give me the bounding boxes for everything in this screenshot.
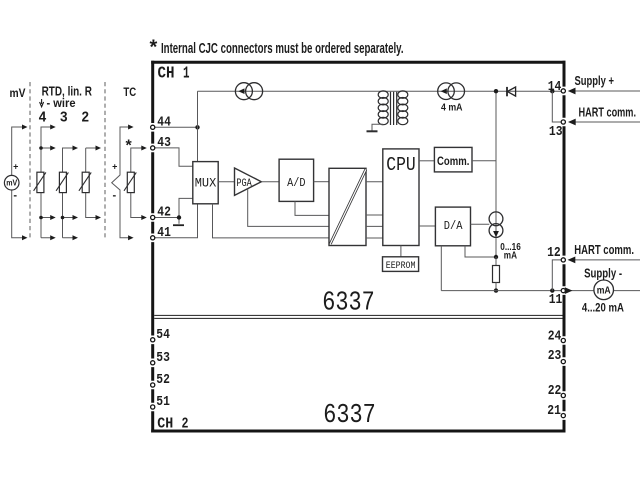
svg-text:PGA: PGA	[236, 178, 252, 190]
wire D/A bottom to sense node	[465, 246, 496, 257]
sense resistor	[493, 266, 500, 283]
svg-text:mA: mA	[597, 285, 611, 297]
wire A/D to isolation	[314, 181, 329, 183]
terminal 21	[561, 414, 565, 418]
svg-text:6337: 6337	[322, 288, 375, 318]
Comm block	[434, 147, 472, 172]
wire PGA to A/D	[261, 181, 279, 183]
svg-text:*: *	[126, 138, 133, 155]
wire D/A left leg down	[440, 246, 442, 291]
terminal 42	[151, 215, 155, 219]
svg-text:42: 42	[157, 205, 171, 221]
HART comm. arrowhead (13)	[568, 119, 576, 126]
HART comm. external wire (12)	[569, 259, 640, 261]
svg-text:21: 21	[547, 403, 561, 419]
arrow to terminal 41 from mV	[22, 235, 28, 240]
PGA amplifier triangle	[235, 168, 262, 195]
secondary winding	[398, 91, 408, 98]
CJC resistor	[124, 172, 136, 192]
Supply - external wire with mA meter	[571, 290, 594, 292]
CH1 terminal block top bus	[151, 61, 565, 64]
RTD resistor (3-wire)	[56, 172, 68, 192]
CPU block	[383, 149, 419, 246]
svg-text:12: 12	[547, 245, 561, 261]
isolation to CPU wires	[366, 182, 383, 238]
svg-text:Supply -: Supply -	[584, 266, 622, 280]
label -wire down-arrow	[40, 99, 44, 107]
wire source to resistor	[495, 257, 497, 266]
svg-text:41: 41	[157, 225, 171, 241]
mV source loop wire	[12, 127, 25, 238]
terminal 12	[561, 258, 565, 262]
junction node to terminal 12 branch	[550, 288, 554, 292]
mA meter circle	[594, 280, 614, 300]
svg-text:22: 22	[548, 383, 562, 399]
svg-text:53: 53	[156, 350, 170, 366]
TC arrow to terminal 41	[128, 235, 134, 240]
Supply + arrowhead	[568, 88, 576, 95]
wire Comm to supply vertical	[472, 160, 496, 162]
wire A/D bottom to isolation	[295, 201, 329, 215]
svg-text:mV: mV	[10, 86, 26, 100]
svg-text:MUX: MUX	[195, 176, 217, 191]
svg-text:2: 2	[81, 109, 89, 126]
svg-text:+: +	[13, 161, 18, 171]
junction node top rail / supply vertical	[494, 89, 498, 93]
RTD 4-wire column wire	[41, 127, 53, 238]
wire branch to terminal 13	[552, 91, 561, 122]
svg-text:CH: CH	[158, 64, 175, 83]
transformer T1	[378, 91, 408, 125]
svg-text:Supply +: Supply +	[575, 74, 615, 88]
RTD 4-wire junction dot at 42 level	[39, 216, 43, 220]
wire terminal 42 to MUX	[155, 198, 193, 223]
arrow to terminal 44 from mV	[22, 125, 28, 130]
svg-text:4: 4	[39, 109, 47, 126]
wire branch to terminal 12	[552, 260, 561, 291]
svg-text:D/A: D/A	[444, 220, 463, 233]
galvanic isolation barrier	[329, 168, 366, 245]
svg-text:mV: mV	[6, 179, 18, 188]
svg-text:CH: CH	[157, 416, 173, 433]
D/A block	[435, 207, 470, 246]
RTD 2-wire column wire	[86, 148, 97, 218]
wire terminal 41 to MUX bottom	[155, 204, 198, 238]
RTD 4-wire junction dot at 43 level	[39, 146, 43, 150]
terminal 22	[561, 393, 565, 397]
vertical wire from top rail to MUX top	[197, 91, 199, 161]
EEPROM block	[383, 257, 419, 272]
primary winding	[378, 91, 388, 98]
CJC arrow to terminal 43	[141, 146, 147, 151]
svg-text:2: 2	[182, 416, 189, 433]
svg-text:4...20 mA: 4...20 mA	[582, 303, 624, 315]
wire MUX bottom to isolation	[213, 204, 330, 238]
output current source 0...16 mA (two circles, down arrow)	[489, 212, 503, 238]
svg-text:43: 43	[157, 135, 171, 151]
svg-text:24: 24	[548, 329, 562, 345]
svg-text:HART comm.: HART comm.	[574, 243, 634, 257]
supply vertical wire	[495, 91, 497, 257]
wire primary to ground	[372, 124, 383, 130]
PGA feedback wire to isolation	[248, 189, 329, 227]
terminal 52	[151, 383, 155, 387]
top supply rail wire	[198, 90, 562, 92]
svg-text:+: +	[112, 161, 117, 171]
wire D/A to output current source	[471, 223, 490, 225]
svg-text:52: 52	[156, 372, 170, 388]
terminal 54	[151, 338, 155, 342]
svg-text:HART comm.: HART comm.	[579, 105, 637, 119]
wire CPU to Comm	[419, 160, 434, 162]
svg-text:CPU: CPU	[386, 154, 416, 176]
wire CPU to D/A	[419, 225, 435, 227]
svg-text:51: 51	[156, 394, 170, 410]
input-type separator dashed line (RTD | TC)	[104, 82, 106, 239]
MUX block	[193, 162, 218, 204]
terminal 14	[561, 89, 565, 93]
junction node to terminal 13 branch	[550, 89, 554, 93]
wire resistor to output rail	[495, 283, 497, 291]
RTD 2-wire arrows	[96, 146, 102, 221]
terminal 23	[561, 360, 565, 364]
svg-text:*: *	[150, 37, 158, 59]
right terminal bus (heavy)	[563, 61, 566, 433]
HART comm. arrowhead (12)	[568, 257, 576, 264]
junction node resistor / output rail	[494, 288, 498, 292]
TC arrow to terminal 44	[128, 125, 134, 130]
svg-text:6337: 6337	[323, 401, 376, 431]
RTD resistor (4-wire)	[34, 172, 46, 192]
diode D1 (reverse protection)	[507, 87, 516, 96]
svg-text:11: 11	[549, 292, 563, 308]
supply current source 4 mA (two circles, left arrow)	[438, 83, 465, 100]
svg-text:54: 54	[156, 327, 170, 343]
ground (transformer primary)	[367, 130, 378, 132]
junction node at 42 wire	[177, 215, 181, 219]
internal supply current source (two circles, left arrow)	[235, 83, 262, 100]
svg-text:13: 13	[549, 124, 563, 140]
terminal 13	[561, 120, 565, 124]
RTD 3-wire column wire	[63, 148, 75, 238]
svg-text:3: 3	[60, 109, 68, 126]
wire MUX to PGA	[218, 181, 234, 183]
Supply + external wire	[569, 90, 640, 92]
HART comm. external wire (13)	[569, 121, 640, 123]
junction node above sense resistor	[494, 255, 498, 259]
wire CPU to EEPROM	[400, 246, 402, 257]
terminal 51	[151, 405, 155, 409]
svg-text:14: 14	[548, 79, 562, 95]
terminal 11	[561, 289, 565, 293]
core	[390, 92, 392, 125]
svg-text:TC: TC	[123, 85, 136, 99]
terminal 53	[151, 361, 155, 365]
input-type separator dashed line (mV | RTD)	[29, 82, 31, 239]
terminal 41	[151, 236, 155, 240]
thermocouple TC wire with junction kink	[112, 127, 130, 238]
RTD resistor (2-wire)	[79, 172, 91, 192]
wire terminal 44 to node	[155, 126, 198, 128]
CJC arrow to terminal 42	[141, 215, 147, 220]
svg-text:A/D: A/D	[287, 176, 305, 190]
svg-text:23: 23	[548, 348, 562, 364]
channel separator double line	[154, 314, 562, 316]
A/D block	[279, 159, 314, 201]
svg-text:Internal CJC connectors must b: Internal CJC connectors must be ordered …	[161, 41, 404, 57]
mV source circle	[4, 175, 19, 190]
CH2 terminal block bottom bus	[151, 430, 565, 433]
svg-text:-: -	[13, 190, 17, 202]
ground (analog input)	[173, 224, 184, 226]
left terminal bus (heavy)	[151, 61, 154, 433]
terminal 43	[151, 146, 155, 150]
svg-text:Comm.: Comm.	[437, 156, 469, 168]
terminal 24	[561, 338, 565, 342]
svg-text:mA: mA	[504, 251, 517, 262]
svg-text:4 mA: 4 mA	[441, 101, 463, 113]
Supply - arrowhead (out of 11)	[565, 287, 573, 294]
svg-text:1: 1	[183, 64, 190, 83]
terminal 44	[151, 125, 155, 129]
svg-text:- wire: - wire	[47, 96, 76, 110]
output bottom rail wire	[441, 290, 561, 292]
svg-text:-: -	[112, 190, 116, 202]
CJC sensor wires	[131, 148, 144, 218]
svg-text:EEPROM: EEPROM	[386, 261, 416, 272]
svg-text:44: 44	[157, 114, 171, 130]
RTD 4-wire arrows	[50, 125, 56, 241]
wire terminal 43 to MUX	[155, 148, 193, 166]
junction node at 44 wire	[195, 125, 199, 129]
RTD 3-wire junction dot at 42 level	[61, 216, 65, 220]
RTD 3-wire arrows	[73, 146, 79, 241]
